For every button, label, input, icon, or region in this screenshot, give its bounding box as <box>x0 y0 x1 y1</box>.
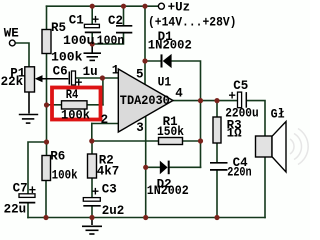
wire C4 bottom lead <box>216 171 218 218</box>
wire C3 bottom lead <box>91 207 93 218</box>
wire C1 top lead <box>91 6 93 24</box>
svg-text:TDA2030: TDA2030 <box>120 94 170 108</box>
capacitor C3 <box>83 198 100 206</box>
svg-text:1u: 1u <box>83 65 98 79</box>
capacitor C7 <box>19 194 35 203</box>
svg-text:22k: 22k <box>1 75 24 89</box>
node pin3-D2 <box>143 165 148 170</box>
node pin1-C6-R4 <box>100 75 105 80</box>
svg-text:Gł: Gł <box>271 107 285 121</box>
svg-text:220n: 220n <box>227 166 252 180</box>
wire R5 top lead <box>46 6 48 29</box>
wire R1 right lead to output column <box>183 140 201 142</box>
wire pin 2 lead <box>92 123 119 125</box>
resistor R1 <box>159 138 183 145</box>
svg-text:150k: 150k <box>157 125 184 139</box>
svg-text:C7: C7 <box>13 181 28 195</box>
wire speaker bottom lead <box>264 157 266 218</box>
node rail-pin3 <box>143 215 148 220</box>
potentiometer P1 <box>25 67 69 92</box>
svg-text:+: + <box>92 185 100 199</box>
node rail-C4 <box>214 215 219 220</box>
resistor R3 <box>213 117 221 143</box>
diode D1 <box>162 54 172 68</box>
diode D2 <box>160 161 169 175</box>
svg-text:C3: C3 <box>102 183 117 197</box>
speaker G1 <box>256 122 309 173</box>
terminal WE <box>9 40 15 46</box>
svg-text:100k: 100k <box>61 108 90 122</box>
wire C1 bottom lead <box>91 33 93 44</box>
wire node X to C7 branch <box>28 142 47 194</box>
capacitor C6 <box>69 71 75 85</box>
capacitor C4 <box>210 163 228 170</box>
node rail-R6 <box>43 215 48 220</box>
node C1-C2 <box>90 41 95 46</box>
wire output column down to D2 <box>200 101 202 168</box>
node X-C7 <box>44 139 49 144</box>
wire top +Uz rail <box>47 5 159 7</box>
op-amp U1 TDA2030 <box>118 69 173 132</box>
wire C2 top lead <box>123 6 125 25</box>
node rail-C1 <box>90 4 95 9</box>
svg-text:WE: WE <box>4 27 19 41</box>
svg-text:100k: 100k <box>52 168 78 182</box>
wire pin2 riser <box>91 124 93 142</box>
svg-text:1: 1 <box>112 63 120 77</box>
capacitor C2 <box>116 26 132 33</box>
wire R4 riser to pin1 node <box>102 78 104 105</box>
node rail-C3 <box>89 215 94 220</box>
svg-text:3: 3 <box>136 121 144 135</box>
svg-text:2u2: 2u2 <box>102 204 125 218</box>
svg-text:5: 5 <box>136 68 144 82</box>
wire C2 bottom to C1 node <box>92 33 123 44</box>
svg-text:1Ω: 1Ω <box>227 127 243 141</box>
wire R2 top lead <box>91 141 93 154</box>
wire D1 anode side to output column <box>172 61 201 101</box>
capacitor C1 <box>84 24 101 32</box>
svg-text:22u: 22u <box>4 202 27 216</box>
resistor R2 <box>88 154 97 178</box>
wire C6 to pin 1 <box>76 77 119 79</box>
node D1-pin5 <box>142 58 147 63</box>
ground (rail) <box>82 218 102 235</box>
svg-text:1N2002: 1N2002 <box>147 184 189 198</box>
node output-D1 <box>198 98 203 103</box>
wire pin2 node to R1 <box>92 140 159 142</box>
svg-text:100n: 100n <box>97 34 125 48</box>
wire R4 left lead <box>47 104 62 106</box>
svg-text:+Uz: +Uz <box>168 1 191 15</box>
svg-text:C6: C6 <box>53 65 68 79</box>
resistor R4 <box>62 101 88 109</box>
wire R3 to C4 <box>216 143 218 162</box>
node X-R4 <box>44 102 49 107</box>
svg-text:(+14V...+28V): (+14V...+28V) <box>148 15 237 29</box>
resistor R6 <box>42 156 51 181</box>
wire C7 bottom lead <box>27 204 29 218</box>
wire D1 cathode lead <box>145 60 161 62</box>
node output-R3 <box>214 98 219 103</box>
svg-text:4: 4 <box>175 87 183 101</box>
wire R3 top lead <box>216 101 218 117</box>
wire +V column to pin 5 <box>144 6 146 84</box>
svg-text:4k7: 4k7 <box>97 164 120 178</box>
svg-text:+: + <box>92 14 100 28</box>
node rail-C2 <box>121 4 126 9</box>
terminal +Uz <box>158 3 164 9</box>
svg-text:C1: C1 <box>69 13 84 27</box>
wire output pin4 to C5 <box>173 100 238 102</box>
wire D2 cathode to output column <box>170 166 201 168</box>
ground (P1) <box>19 92 38 123</box>
svg-text:+: + <box>29 184 37 198</box>
svg-text:+: + <box>228 89 236 103</box>
highlight box around R4 <box>52 88 101 120</box>
wire R4 right lead <box>87 104 103 106</box>
node rail-V column <box>142 4 147 9</box>
wire pin 3 to ground rail <box>145 112 147 218</box>
svg-text:2: 2 <box>101 113 109 127</box>
wire R2 to C3 <box>91 178 93 198</box>
wire D2 anode lead <box>146 166 160 168</box>
wire C5 to speaker <box>247 101 265 136</box>
svg-text:C2: C2 <box>108 14 123 28</box>
resistor R5 <box>42 30 51 54</box>
wire R6 bottom lead <box>45 181 47 218</box>
ground (C1) <box>84 44 102 60</box>
svg-text:100k: 100k <box>51 51 83 65</box>
node pin2-R2 <box>89 138 94 143</box>
node output-R1 <box>198 138 203 143</box>
wire ground bottom rail <box>28 217 265 219</box>
capacitor C5 <box>238 92 247 108</box>
svg-text:1N2002: 1N2002 <box>148 38 192 52</box>
wire R5 bottom to R6 top (node X column) <box>46 54 48 156</box>
svg-text:100u: 100u <box>63 34 95 48</box>
svg-text:U1: U1 <box>158 75 172 89</box>
wire WE input to P1 <box>15 43 29 67</box>
svg-text:R4: R4 <box>66 88 79 102</box>
svg-text:R6: R6 <box>50 150 65 164</box>
